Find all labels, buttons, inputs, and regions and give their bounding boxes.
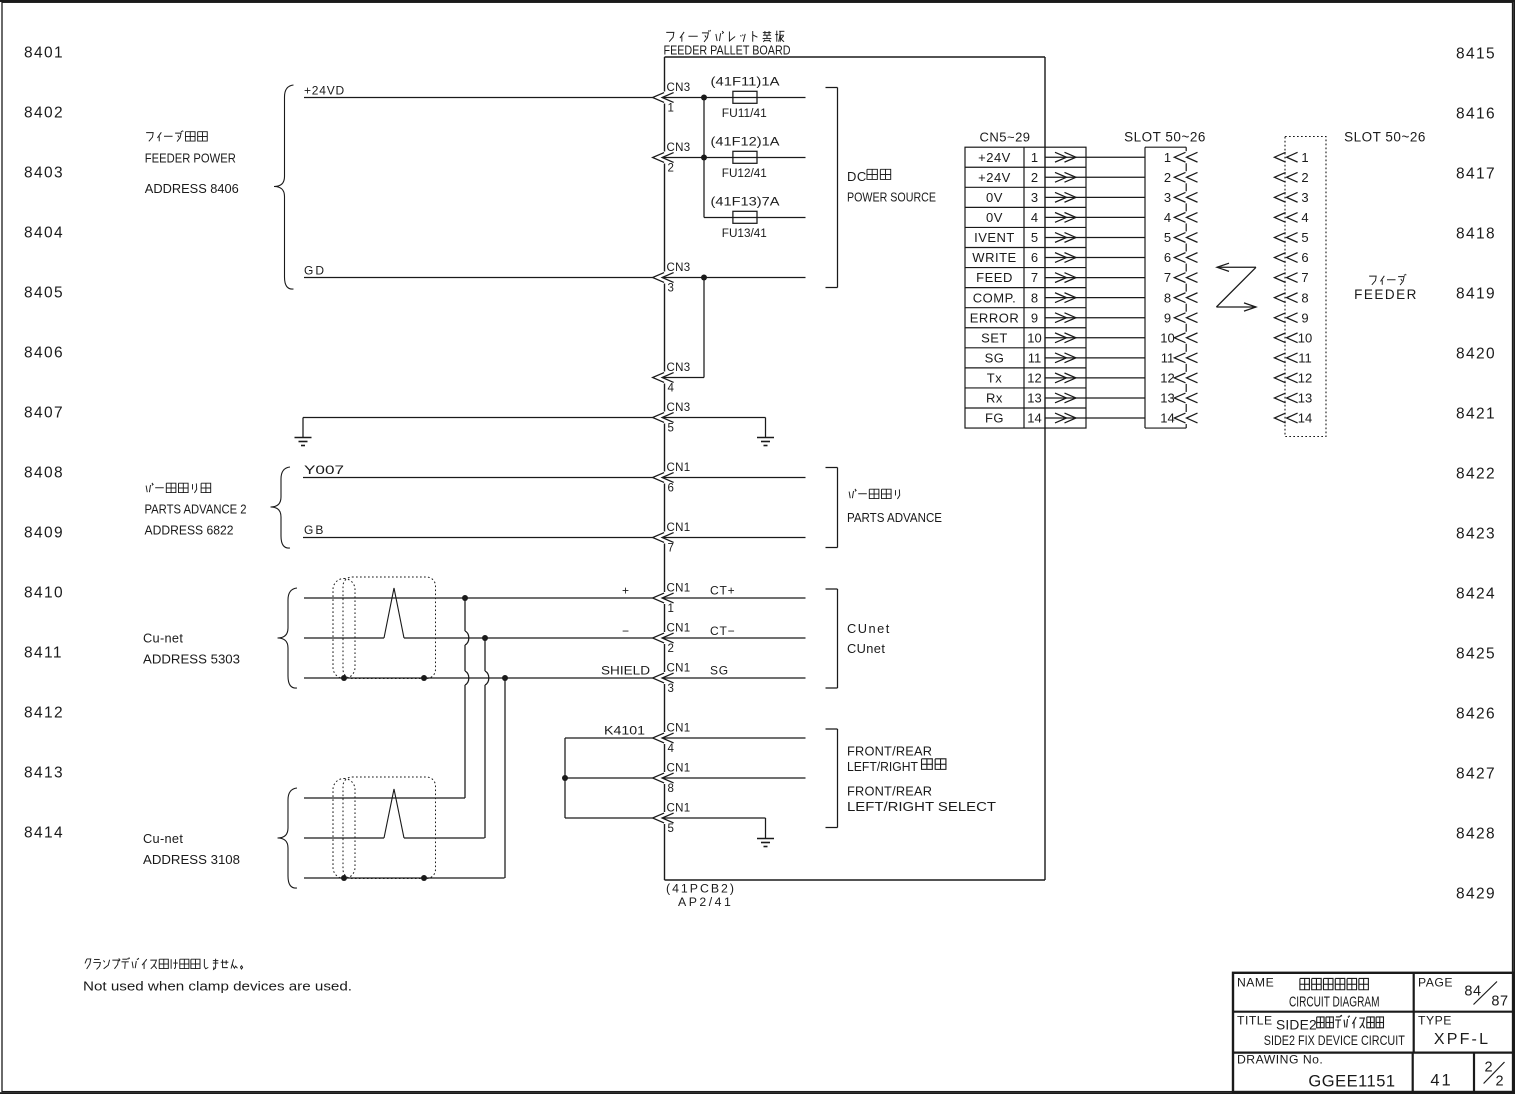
svg-text:−: −: [622, 624, 630, 638]
svg-text:8421: 8421: [1456, 406, 1496, 423]
feeder pin 10: [1274, 333, 1285, 343]
svg-text:9: 9: [1164, 310, 1171, 325]
feeder pin 7: [1274, 273, 1285, 283]
svg-text:1: 1: [1301, 150, 1308, 165]
right margin line numbers 8415-8429: [1456, 46, 1496, 903]
svg-text:3: 3: [668, 683, 674, 695]
svg-text:CT+: CT+: [710, 584, 735, 598]
brace feeder power group: [274, 85, 294, 289]
svg-text:14: 14: [1027, 411, 1041, 426]
fuse FU12/41 (41F12)1A: [733, 151, 757, 163]
svg-text:5: 5: [668, 423, 674, 435]
wire CN1-8 left stub: [565, 777, 653, 779]
svg-text:10: 10: [1298, 330, 1312, 345]
ground right of CN3-5: [765, 418, 767, 438]
svg-text:13: 13: [1298, 391, 1312, 406]
svg-text:8419: 8419: [1456, 286, 1496, 303]
svg-text:87: 87: [1491, 994, 1508, 1010]
svg-text:8411: 8411: [24, 645, 63, 662]
svg-text:8418: 8418: [1456, 226, 1496, 243]
svg-text:5: 5: [1301, 230, 1308, 245]
svg-text:8425: 8425: [1456, 646, 1496, 663]
wire fuse FU13 branch: [704, 217, 806, 219]
svg-text:CN3: CN3: [667, 402, 691, 414]
feeder pin 5: [1274, 233, 1285, 243]
fuse FU11/41 (41F11)1A: [733, 91, 757, 103]
wire CN3-2 to power bracket: [663, 157, 806, 159]
svg-text:GGEE1151: GGEE1151: [1308, 1073, 1395, 1091]
crossover arrow: [1217, 266, 1256, 268]
svg-text:8410: 8410: [24, 585, 64, 602]
twisted pair symbol 1: [384, 588, 404, 638]
left margin line numbers 8401-8414: [24, 45, 64, 842]
svg-text:ADDRESS 5303: ADDRESS 5303: [143, 652, 240, 667]
shield outline cable 1: [333, 579, 355, 679]
svg-text:CN1: CN1: [667, 583, 691, 595]
svg-text:3: 3: [1031, 190, 1038, 205]
feeder pin 2: [1274, 172, 1285, 182]
brace parts advance group: [271, 467, 291, 548]
svg-text:FEEDER POWER: FEEDER POWER: [145, 151, 236, 166]
svg-text:8: 8: [1031, 290, 1038, 305]
wire CN3-5 right: [663, 417, 766, 419]
svg-text:TITLE: TITLE: [1237, 1014, 1273, 1028]
svg-text:SG: SG: [710, 664, 729, 678]
wire lower pair A: [304, 797, 465, 799]
wire CN3-5 left: [303, 417, 653, 419]
svg-text:ERROR: ERROR: [970, 310, 1019, 325]
svg-text:+24V: +24V: [978, 150, 1011, 165]
connector CN3 pin 2: [653, 153, 665, 163]
brace cu-net group 2: [278, 788, 298, 888]
svg-text:8401: 8401: [24, 45, 64, 62]
connector CN1 pin 4: [653, 733, 665, 743]
label PARTS ADVANCE 2 ADDRESS 6822: [146, 486, 147, 493]
svg-text:CN1: CN1: [667, 723, 691, 735]
svg-text:10: 10: [1027, 330, 1041, 345]
svg-text:8427: 8427: [1456, 766, 1496, 783]
connector CN1 pin 3: [653, 673, 665, 683]
svg-text:8420: 8420: [1456, 346, 1496, 363]
svg-text:FU13/41: FU13/41: [722, 226, 767, 240]
connector CN1 pin 6: [653, 473, 665, 483]
svg-text:+24VD: +24VD: [304, 84, 345, 98]
svg-text:8423: 8423: [1456, 526, 1496, 543]
connector CN3 pin 1: [653, 93, 665, 103]
svg-text:8: 8: [668, 783, 674, 795]
svg-text:ADDRESS 8406: ADDRESS 8406: [145, 181, 239, 196]
label FEEDER POWER ADDRESS 8406: [146, 133, 153, 142]
svg-text:4: 4: [1031, 210, 1038, 225]
svg-text:FEED: FEED: [976, 270, 1013, 285]
svg-text:FRONT/REAR: FRONT/REAR: [847, 744, 932, 759]
bracket CUnet: [837, 589, 839, 688]
svg-text:8409: 8409: [24, 525, 64, 542]
svg-text:0V: 0V: [986, 190, 1003, 205]
svg-text:8413: 8413: [24, 765, 64, 782]
connector CN3 pin 4: [653, 373, 665, 383]
svg-text:CUnet: CUnet: [847, 621, 891, 636]
page border frame: [0, 0, 1515, 2]
svg-text:8416: 8416: [1456, 106, 1496, 123]
svg-text:CN3: CN3: [667, 82, 691, 94]
wire CN1-7 inside: [663, 537, 806, 539]
svg-text:SG: SG: [985, 350, 1005, 365]
svg-text:ADDRESS 3108: ADDRESS 3108: [143, 852, 240, 867]
feeder pin 13: [1274, 393, 1285, 403]
svg-text:5: 5: [668, 823, 674, 835]
svg-text:4: 4: [1164, 210, 1171, 225]
svg-text:Not used when clamp devices ar: Not used when clamp devices are used.: [83, 979, 352, 994]
svg-text:CN1: CN1: [667, 803, 691, 815]
svg-text:8417: 8417: [1456, 166, 1496, 183]
wire CN1-5 inside to ground: [663, 817, 766, 819]
label FEEDER: [1369, 276, 1376, 285]
svg-text:9: 9: [1031, 310, 1038, 325]
svg-text:8403: 8403: [24, 165, 64, 182]
wire drop 3 to lower cable: [504, 678, 506, 878]
svg-text:8414: 8414: [24, 825, 64, 842]
svg-text:8: 8: [1301, 290, 1308, 305]
label PARTS ADVANCE: [849, 492, 850, 499]
svg-text:13: 13: [1027, 391, 1041, 406]
svg-text:SLOT 50~26: SLOT 50~26: [1344, 130, 1426, 145]
svg-text:(41F13)7A: (41F13)7A: [711, 195, 781, 209]
svg-text:FEEDER PALLET BOARD: FEEDER PALLET BOARD: [664, 43, 791, 58]
svg-text:DC: DC: [847, 169, 867, 184]
svg-text:XPF-L: XPF-L: [1434, 1031, 1490, 1048]
wire CN3-1 to power bracket: [663, 97, 806, 99]
wire drop 1 to lower cable: [464, 598, 466, 631]
svg-text:Tx: Tx: [987, 370, 1002, 385]
svg-text:8415: 8415: [1456, 46, 1496, 63]
svg-text:4: 4: [668, 383, 675, 395]
brace cu-net group 1: [278, 588, 298, 688]
svg-text:14: 14: [1298, 411, 1312, 426]
svg-text:8405: 8405: [24, 285, 64, 302]
feeder pin 12: [1274, 373, 1285, 383]
svg-text:SIDE2 FIX DEVICE CIRCUIT: SIDE2 FIX DEVICE CIRCUIT: [1264, 1033, 1405, 1048]
feeder pin 1: [1274, 152, 1285, 162]
svg-text:+: +: [622, 584, 630, 598]
bracket DC power source: [837, 88, 839, 288]
connector CN3 pin 3: [653, 273, 665, 283]
svg-text:WRITE: WRITE: [972, 250, 1016, 265]
svg-text:8408: 8408: [24, 465, 64, 482]
svg-text:(41F12)1A: (41F12)1A: [711, 135, 781, 149]
wire lower shield C: [304, 877, 505, 879]
feeder pin 4: [1274, 213, 1285, 223]
svg-text:8: 8: [1164, 290, 1171, 305]
svg-text:1: 1: [668, 603, 674, 615]
svg-text:8424: 8424: [1456, 586, 1496, 603]
svg-text:6: 6: [1031, 250, 1038, 265]
svg-text:SET: SET: [981, 330, 1008, 345]
svg-text:2: 2: [1164, 170, 1171, 185]
feeder pin 8: [1274, 293, 1285, 303]
svg-text:1: 1: [1031, 150, 1038, 165]
svg-text:6: 6: [1164, 250, 1171, 265]
wire lower pair B: [304, 837, 384, 839]
svg-text:8422: 8422: [1456, 466, 1496, 483]
svg-text:CUnet: CUnet: [847, 641, 885, 656]
svg-text:GD: GD: [304, 264, 326, 278]
wire junction vertical bus: [703, 98, 705, 218]
connector CN3 pin 5: [653, 413, 665, 423]
wire drop 2 to lower cable: [484, 638, 486, 671]
wire K4101 vertical: [564, 738, 566, 818]
svg-text:5: 5: [1031, 230, 1038, 245]
slot connector SLOT 50~26: [1145, 146, 1186, 148]
svg-text:CN1: CN1: [667, 663, 691, 675]
svg-text:K4101: K4101: [604, 724, 645, 738]
feeder pin 3: [1274, 192, 1285, 202]
svg-text:12: 12: [1160, 370, 1174, 385]
bracket front/rear select: [837, 729, 839, 828]
svg-text:PARTS ADVANCE: PARTS ADVANCE: [847, 510, 942, 525]
ground left of CN3-5: [302, 418, 304, 438]
fuse FU13/41 (41F13)7A: [733, 211, 757, 223]
svg-text:11: 11: [1298, 350, 1312, 365]
svg-text:7: 7: [1164, 270, 1171, 285]
svg-text:CN1: CN1: [667, 763, 691, 775]
svg-text:7: 7: [668, 543, 674, 555]
svg-text:CN1: CN1: [667, 462, 691, 474]
feeder connector dotted SLOT 50~26: [1285, 137, 1326, 437]
svg-text:1: 1: [668, 103, 674, 115]
svg-text:2: 2: [1301, 170, 1308, 185]
svg-text:(41F11)1A: (41F11)1A: [711, 75, 781, 89]
svg-text:POWER SOURCE: POWER SOURCE: [847, 190, 936, 205]
svg-text:7: 7: [1031, 270, 1038, 285]
svg-text:FEEDER: FEEDER: [1354, 287, 1418, 302]
feeder pin 14: [1274, 413, 1285, 423]
svg-text:12: 12: [1027, 370, 1041, 385]
svg-text:8412: 8412: [24, 705, 64, 722]
svg-text:84: 84: [1464, 984, 1481, 1000]
wire CN1-4 inside: [663, 737, 806, 739]
svg-text:CN1: CN1: [667, 522, 691, 534]
svg-text:2: 2: [1031, 170, 1038, 185]
svg-text:6: 6: [668, 483, 674, 495]
svg-text:Cu-net: Cu-net: [143, 831, 183, 846]
svg-text:IVENT: IVENT: [974, 230, 1015, 245]
svg-text:3: 3: [668, 283, 674, 295]
svg-text:GB: GB: [304, 523, 325, 537]
svg-text:CIRCUIT DIAGRAM: CIRCUIT DIAGRAM: [1289, 995, 1380, 1011]
svg-text:SIDE2: SIDE2: [1276, 1018, 1317, 1033]
svg-text:0V: 0V: [986, 210, 1003, 225]
svg-text:CN1: CN1: [667, 623, 691, 635]
wire CN3-3 GD inside: [663, 277, 806, 279]
title block frame: [1233, 973, 1513, 1092]
svg-text:14: 14: [1160, 411, 1174, 426]
svg-text:13: 13: [1160, 391, 1174, 406]
wire CN1-5 left stub: [565, 817, 653, 819]
svg-text:2: 2: [1484, 1060, 1492, 1076]
svg-text:11: 11: [1161, 350, 1175, 365]
svg-text:9: 9: [1301, 310, 1308, 325]
svg-text:7: 7: [1301, 270, 1308, 285]
svg-text:5: 5: [1164, 230, 1171, 245]
svg-text:+24V: +24V: [978, 170, 1011, 185]
svg-text:1: 1: [1164, 150, 1171, 165]
svg-text:4: 4: [1301, 210, 1308, 225]
svg-text:Cu-net: Cu-net: [143, 631, 183, 646]
svg-text:11: 11: [1028, 350, 1042, 365]
wire CN1-8 inside: [663, 777, 806, 779]
svg-text:8426: 8426: [1456, 706, 1496, 723]
svg-text:10: 10: [1160, 330, 1174, 345]
note clamp devices: [85, 959, 87, 963]
svg-text:8404: 8404: [24, 225, 64, 242]
svg-text:CT−: CT−: [710, 624, 735, 638]
svg-text:3: 3: [1301, 190, 1308, 205]
wire CN1-6 inside: [663, 477, 806, 479]
svg-text:LEFT/RIGHT: LEFT/RIGHT: [847, 759, 918, 774]
svg-text:2: 2: [1495, 1074, 1503, 1090]
svg-text:TYPE: TYPE: [1418, 1014, 1452, 1028]
svg-text:NAME: NAME: [1237, 976, 1274, 990]
svg-text:Y007: Y007: [304, 463, 344, 477]
feeder pin 9: [1274, 313, 1285, 323]
svg-text:ADDRESS 6822: ADDRESS 6822: [145, 523, 234, 538]
svg-text:41: 41: [1430, 1072, 1452, 1090]
svg-text:LEFT/RIGHT SELECT: LEFT/RIGHT SELECT: [847, 799, 996, 814]
svg-text:AP2/41: AP2/41: [678, 895, 733, 909]
svg-text:COMP.: COMP.: [973, 290, 1016, 305]
svg-text:8406: 8406: [24, 345, 64, 362]
bracket parts advance: [837, 468, 839, 548]
board AP2/41 FEEDER PALLET BOARD outline: [665, 56, 1046, 58]
wire GD vertical to CN3-4: [703, 278, 705, 378]
connector CN1 pin 1: [653, 593, 665, 603]
svg-text:FRONT/REAR: FRONT/REAR: [847, 784, 932, 799]
board title label FEEDER PALLET BOARD: [666, 32, 674, 41]
svg-text:DRAWING No.: DRAWING No.: [1237, 1052, 1323, 1066]
svg-text:8428: 8428: [1456, 826, 1496, 843]
svg-text:8402: 8402: [24, 105, 64, 122]
svg-text:6: 6: [1301, 250, 1308, 265]
svg-text:(41PCB2): (41PCB2): [666, 882, 736, 896]
svg-text:Rx: Rx: [986, 391, 1003, 406]
svg-text:8407: 8407: [24, 405, 64, 422]
feeder pin 6: [1274, 253, 1285, 263]
feeder pin 11: [1274, 353, 1285, 363]
svg-text:PARTS ADVANCE 2: PARTS ADVANCE 2: [145, 502, 247, 517]
svg-text:FU11/41: FU11/41: [722, 106, 767, 120]
svg-text:4: 4: [668, 743, 675, 755]
connector table CN5~29: [965, 147, 1086, 428]
connector CN1 pin 8: [653, 773, 665, 783]
svg-text:12: 12: [1298, 370, 1312, 385]
svg-text:SLOT 50~26: SLOT 50~26: [1124, 130, 1206, 145]
ground CN1-5: [765, 818, 767, 839]
wire CN3-4: [663, 377, 704, 379]
svg-text:2: 2: [668, 643, 674, 655]
svg-text:SHIELD: SHIELD: [601, 664, 650, 678]
svg-text:CN5~29: CN5~29: [979, 130, 1030, 145]
connector CN1 pin 5: [653, 813, 665, 823]
svg-text:CN3: CN3: [667, 262, 691, 274]
svg-text:2: 2: [668, 163, 674, 175]
svg-text:FU12/41: FU12/41: [722, 166, 767, 180]
shield outline cable 2: [333, 779, 355, 879]
twisted pair symbol 2: [384, 789, 404, 838]
svg-text:FG: FG: [985, 411, 1004, 426]
connector CN1 pin 7: [653, 533, 665, 543]
svg-text:3: 3: [1164, 190, 1171, 205]
svg-text:CN3: CN3: [667, 142, 691, 154]
svg-text:8429: 8429: [1456, 886, 1496, 903]
connector CN1 pin 2: [653, 633, 665, 643]
svg-text:CN3: CN3: [667, 362, 691, 374]
svg-text:PAGE: PAGE: [1418, 976, 1453, 990]
